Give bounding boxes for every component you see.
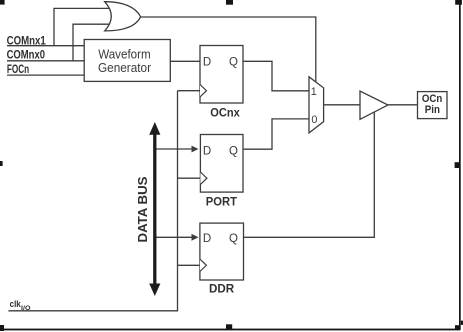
svg-text:1: 1 — [311, 86, 317, 98]
wire buffer output to OCn Pin — [388, 104, 418, 106]
svg-text:OCn: OCn — [422, 93, 442, 105]
D flip-flop PORT — [200, 135, 243, 209]
wire COMnx0 branch to OR gate bottom input — [73, 24, 110, 61]
pad OCn Pin — [418, 92, 448, 119]
multiplexer — [309, 77, 324, 133]
wire mux output to buffer input — [324, 104, 360, 106]
D flip-flop OCnx — [200, 46, 243, 120]
wire COMnx0 to Waveform Generator — [7, 60, 84, 62]
svg-text:COMnx0: COMnx0 — [7, 47, 46, 61]
wire COMnx1 branch to OR gate top input — [54, 8, 110, 45]
svg-text:Q: Q — [229, 145, 238, 157]
wire COMnx1 to Waveform Generator — [7, 45, 84, 47]
svg-text:Q: Q — [229, 57, 238, 69]
D flip-flop DDR — [200, 223, 244, 295]
svg-text:Waveform: Waveform — [98, 48, 151, 62]
svg-text:0: 0 — [311, 114, 317, 126]
svg-text:D: D — [203, 233, 211, 245]
OR gate — [105, 2, 141, 31]
svg-text:OCnx: OCnx — [210, 105, 240, 119]
svg-text:Pin: Pin — [425, 104, 440, 116]
svg-text:clk: clk — [10, 299, 22, 309]
wire DDR Q to buffer enable — [244, 113, 375, 238]
arrowhead into DDR D — [192, 234, 199, 241]
wire clk branch to OCnx clock — [178, 90, 201, 92]
wire clk branch to PORT clock — [178, 177, 201, 179]
tri-state buffer — [360, 91, 388, 119]
block Waveform Generator — [84, 40, 170, 82]
svg-text:I/O: I/O — [21, 306, 31, 312]
svg-text:COMnx1: COMnx1 — [7, 33, 47, 47]
svg-text:Q: Q — [229, 233, 238, 245]
svg-text:FOCn: FOCn — [7, 62, 29, 76]
svg-text:DDR: DDR — [209, 282, 235, 296]
wire PORT Q to mux input 0 — [243, 119, 309, 149]
wire Waveform Generator output to OCnx D input — [170, 60, 200, 62]
svg-text:PORT: PORT — [206, 195, 238, 209]
svg-text:D: D — [203, 57, 211, 69]
label clk I/O — [10, 299, 31, 312]
arrowhead into PORT D — [192, 146, 199, 153]
wire clk I/O to flip-flop clocks — [8, 91, 177, 311]
DATA BUS double arrow — [149, 122, 160, 296]
wire DATA BUS to DDR D input — [156, 236, 193, 238]
wire FOCn to Waveform Generator — [7, 74, 84, 76]
wire OCnx Q to mux input 1 — [243, 61, 309, 91]
svg-text:DATA BUS: DATA BUS — [135, 176, 150, 242]
svg-text:D: D — [203, 145, 211, 157]
svg-text:Generator: Generator — [98, 61, 151, 75]
wire DATA BUS to PORT D input — [156, 148, 193, 150]
wire clk branch to DDR clock — [178, 264, 201, 266]
wire OR gate output to mux select — [141, 17, 316, 82]
